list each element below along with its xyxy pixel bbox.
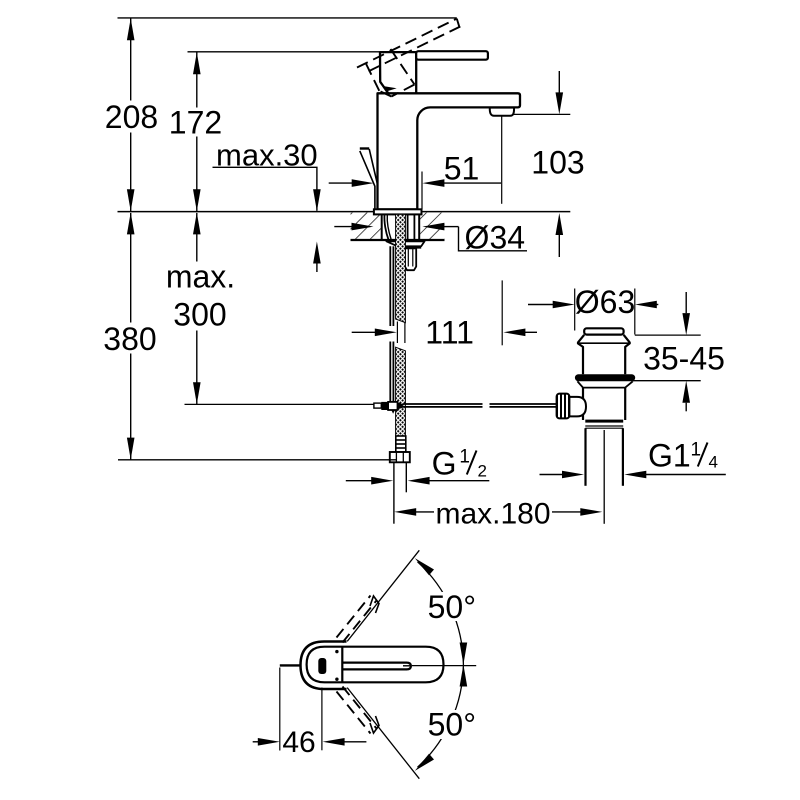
angle 50 bottom text xyxy=(424,710,480,739)
svg-text:max.: max. xyxy=(166,259,235,295)
spout aerator xyxy=(490,108,514,116)
drain body xyxy=(582,388,584,420)
pull rod through counter xyxy=(384,215,388,240)
pop-up linkage clamp xyxy=(374,403,381,408)
svg-text:46: 46 xyxy=(282,726,315,759)
dim 103 line xyxy=(558,71,560,95)
drain body shoulder xyxy=(577,381,632,387)
svg-text:max.180: max.180 xyxy=(435,498,550,531)
counter hole edge left xyxy=(381,213,383,240)
angle arc up xyxy=(418,562,464,665)
dim 35-45 extensions xyxy=(635,334,701,336)
svg-text:1: 1 xyxy=(691,440,702,461)
mounting washer xyxy=(386,241,424,246)
svg-text:51: 51 xyxy=(444,151,480,187)
angle arc down xyxy=(418,665,464,768)
plan angle line up xyxy=(347,550,419,641)
plan view pull rod tick xyxy=(280,664,300,666)
drain flange shoulder line xyxy=(578,342,629,344)
counter top line xyxy=(118,211,571,213)
dim 111 line xyxy=(352,331,377,333)
dashed handle rotated up xyxy=(357,19,460,97)
svg-text:2: 2 xyxy=(478,462,487,481)
plan view lever left chord xyxy=(341,648,343,682)
plan view outer base stadium xyxy=(301,642,347,690)
angle 50 top text xyxy=(424,592,480,621)
drain groove band xyxy=(585,420,623,423)
dim max30 underline leader xyxy=(213,167,317,211)
svg-text:50°: 50° xyxy=(428,707,476,743)
hose ribbed connector xyxy=(396,436,406,452)
svg-text:208: 208 xyxy=(105,99,158,135)
counter bottom line xyxy=(351,239,445,241)
svg-text:1: 1 xyxy=(459,447,470,468)
washer second bar xyxy=(398,247,422,249)
counter hatch right xyxy=(419,213,444,240)
dim max180 line xyxy=(394,508,416,516)
dim 380 line xyxy=(130,213,132,323)
mounting stud through counter xyxy=(407,214,409,248)
drain tailpipe centerline xyxy=(603,430,605,524)
svg-text:35-45: 35-45 xyxy=(643,341,725,377)
svg-text:G: G xyxy=(432,445,457,481)
dim 46 line xyxy=(253,741,259,743)
plan break mark down xyxy=(370,716,379,733)
svg-text:Ø63: Ø63 xyxy=(575,284,635,320)
plan angle line down xyxy=(347,688,419,779)
svg-text:111: 111 xyxy=(425,315,474,351)
dim 46 extensions xyxy=(279,668,281,751)
svg-text:4: 4 xyxy=(709,453,718,472)
svg-text:50°: 50° xyxy=(428,589,476,625)
dim dia63 extensions xyxy=(574,289,576,331)
spout centre extension xyxy=(501,116,503,204)
dim 172 line xyxy=(196,53,198,108)
dim 35-45 line xyxy=(685,292,687,313)
counter hole edge right xyxy=(418,213,420,240)
handle box wedge xyxy=(382,86,397,92)
dim max300 line xyxy=(196,213,198,262)
G half nut xyxy=(390,452,410,462)
pop-up linkage horizontal rod xyxy=(403,403,483,405)
flexible hose upper section xyxy=(396,214,406,322)
plan view lever capsule xyxy=(307,647,444,683)
plan view spout blob xyxy=(318,658,326,674)
dim Ghalf line xyxy=(346,480,372,482)
dim 103 extension top xyxy=(513,113,570,115)
dim 111 extension right xyxy=(501,280,503,345)
dim max300 extension bottom xyxy=(185,403,375,405)
plan dashed lever down xyxy=(337,687,377,734)
plan dashed lever up xyxy=(337,596,377,643)
drain flange xyxy=(578,335,630,374)
faucet base plate xyxy=(374,209,422,214)
svg-text:380: 380 xyxy=(103,321,156,357)
dim dia63 line xyxy=(528,304,554,306)
dim 208 extension top xyxy=(118,17,457,19)
angle arrowheads xyxy=(415,558,434,575)
svg-text:Ø34: Ø34 xyxy=(465,219,525,255)
plan view screw dot top xyxy=(335,650,338,653)
pull rod below counter xyxy=(389,246,391,326)
supply pipe below nut xyxy=(393,462,395,523)
faucet body and spout deck xyxy=(378,93,521,209)
plan view slot xyxy=(343,663,411,670)
handle lever xyxy=(416,51,488,60)
dim G1quarter line xyxy=(540,474,564,476)
drain o-ring xyxy=(575,374,635,381)
drain plug cap xyxy=(584,328,623,334)
svg-text:103: 103 xyxy=(531,145,584,181)
plan break mark up xyxy=(370,596,379,613)
dim 380 extension bottom xyxy=(118,459,397,461)
mounting nut xyxy=(405,248,416,270)
dim 51 line xyxy=(329,182,353,184)
drain tailpipe xyxy=(584,428,586,486)
hose break outline xyxy=(396,322,398,344)
plan view centerline xyxy=(403,665,410,667)
dim dia34 leader xyxy=(459,227,528,251)
dim 51 extension right xyxy=(421,172,423,210)
svg-text:300: 300 xyxy=(173,297,226,333)
svg-text:G1: G1 xyxy=(648,438,691,474)
handle box xyxy=(380,52,416,93)
svg-text:172: 172 xyxy=(169,105,222,141)
drain knurled knob xyxy=(557,394,570,419)
drain knob shaft xyxy=(569,397,586,417)
dim 208 line xyxy=(130,19,132,101)
counter hatch left xyxy=(351,213,382,240)
dim dia34 line xyxy=(334,226,353,228)
pop-up pull rod upper xyxy=(360,149,378,210)
plan view screw dot bottom xyxy=(335,678,338,681)
flexible hose lower section xyxy=(396,347,406,436)
dim 172 extension xyxy=(188,51,380,53)
